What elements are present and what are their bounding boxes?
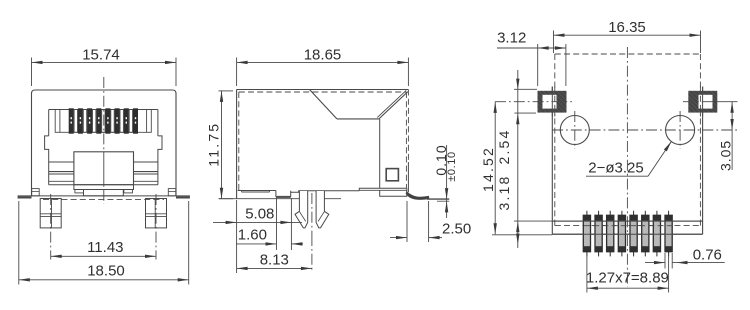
side view hidden housing outline (dashed): [239, 90, 409, 193]
dimension 2.50 (tab extension): [390, 201, 471, 242]
jack cavity opening profile: [45, 110, 162, 185]
svg-text:3.12: 3.12: [497, 30, 526, 47]
dimension 3.05: [718, 102, 738, 171]
svg-text:5.08: 5.08: [245, 205, 274, 222]
shield solder tab (S-curve): [406, 192, 429, 200]
dimension 5.08: [213, 198, 302, 273]
left shield tab hole (filled square): [495, 87, 572, 117]
bottom view hidden mating-face outline (dashed): [555, 54, 701, 226]
svg-text:3.05: 3.05: [718, 140, 734, 171]
contact comb slots: [55, 110, 151, 133]
dimension 14.52: [480, 89, 537, 234]
plug latch window block: [74, 152, 134, 196]
hidden edge under body (dashed): [43, 198, 164, 200]
bottom edge / seating line: [18, 195, 190, 197]
svg-text:1.27x7=8.89: 1.27x7=8.89: [586, 269, 669, 286]
leg centerlines: [50, 194, 52, 260]
svg-text:14.52: 14.52: [480, 146, 496, 192]
left mounting leg: [40, 199, 61, 228]
side view body outline (solid): [237, 90, 409, 199]
svg-text:2−ø3.25: 2−ø3.25: [588, 159, 643, 176]
svg-text:±0.10: ±0.10: [446, 151, 458, 181]
svg-text:11.75: 11.75: [206, 122, 222, 167]
snap post right prong: [316, 191, 329, 228]
contact wire bands in side channels: [49, 162, 158, 181]
dimension 0.10 +/-0.10 (coplanarity): [427, 144, 458, 218]
svg-text:18.50: 18.50: [87, 263, 125, 280]
svg-text:1.60: 1.60: [238, 227, 267, 244]
holes horizontal centerline: [552, 129, 737, 131]
svg-text:0.76: 0.76: [693, 246, 722, 263]
dimension 11.43 (leg span): [51, 239, 156, 258]
svg-text:15.74: 15.74: [82, 47, 120, 64]
bottom view body outline: [552, 87, 702, 235]
svg-text:8.13: 8.13: [260, 251, 289, 268]
8 PCB pins row: [552, 211, 702, 257]
dimension 16.35: [554, 19, 701, 53]
svg-text:18.65: 18.65: [304, 47, 342, 64]
right shield tab hole (filled square): [683, 87, 718, 117]
bottom view centerline: [626, 47, 628, 287]
dimension 0.76 (pin width): [645, 246, 725, 268]
dimension 18.50 (overall width): [19, 201, 189, 285]
shield square hole: [386, 169, 398, 181]
left shield flange (thick): [18, 196, 32, 198]
snap post left prong: [295, 191, 308, 228]
dimensions 2.54 and 3.18 chain: [492, 70, 552, 248]
dimension 11.75 (height): [206, 91, 234, 199]
snap post centerline: [311, 193, 313, 235]
svg-text:2.50: 2.50: [442, 221, 471, 238]
dimension 18.65 (depth): [237, 47, 409, 87]
front view vertical centerline: [103, 77, 105, 204]
label 2-dia3.25 with leader: [586, 141, 672, 176]
dimension 3.12: [497, 30, 566, 87]
PCB seating line: [219, 198, 299, 200]
shield feet: [32, 189, 176, 196]
dimension 15.74 (front width): [32, 47, 177, 87]
svg-text:11.43: 11.43: [87, 239, 123, 256]
8 jack contact pins: [69, 108, 138, 133]
svg-text:16.35: 16.35: [608, 19, 646, 36]
right shield flange (thick): [176, 196, 190, 198]
svg-text:3.18: 3.18: [496, 174, 512, 210]
dimension 8.13: [237, 235, 312, 273]
front view: RJ45 jack body outline: [32, 90, 177, 196]
mounting hole right (circle): [666, 111, 695, 149]
dimension 1.60: [236, 198, 303, 250]
right mounting leg: [146, 199, 167, 228]
mounting hole left (circle): [560, 111, 589, 149]
shield top fold (trapezoid): [310, 90, 408, 189]
svg-text:2.54: 2.54: [496, 128, 512, 164]
dimension 1.27x7=8.89 (pin pitch): [586, 254, 669, 293]
